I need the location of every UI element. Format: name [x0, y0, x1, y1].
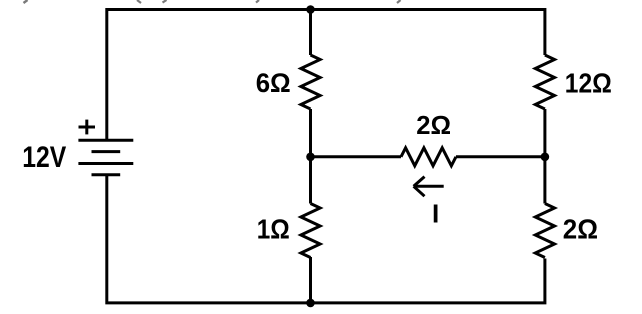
wire middle horizontal left segment: [311, 155, 402, 158]
node B dot (middle left junction): [306, 153, 315, 162]
resistor R5 2ohm right zigzag: [535, 204, 554, 258]
cut-off text fragment 5: [397, 0, 401, 3]
battery V1 plate long top: [78, 139, 133, 142]
svg-text:2Ω: 2Ω: [563, 213, 598, 244]
svg-text:I: I: [432, 199, 439, 229]
wire middle vertical top (node A to 6-ohm): [309, 10, 312, 56]
battery V1 plate short bottom: [92, 173, 121, 176]
resistor R2 12ohm zigzag: [535, 55, 554, 109]
resistor R3 1ohm zigzag: [301, 204, 320, 258]
battery V1 plate short: [92, 150, 121, 153]
wire right vertical center (12-ohm to 2-ohm through node C): [543, 109, 546, 204]
wire middle horizontal right segment: [456, 155, 545, 158]
battery plus sign: [79, 120, 96, 135]
node C dot (middle right junction): [541, 153, 550, 162]
node D dot (bottom middle): [306, 299, 315, 308]
battery V1 plate long bottom: [78, 162, 133, 165]
wire middle vertical bottom (1-ohm to bottom node): [309, 257, 312, 303]
svg-text:6Ω: 6Ω: [256, 68, 291, 98]
cut-off text fragment 2: [137, 0, 141, 3]
resistor R4 2ohm horizontal zigzag: [401, 148, 456, 166]
current arrow I: [414, 177, 444, 197]
svg-text:1Ω: 1Ω: [257, 213, 290, 244]
wire middle vertical center (6-ohm to 1-ohm through node B): [309, 109, 312, 204]
resistor R1 6ohm zigzag: [301, 55, 320, 109]
cut-off text fragment 1: [24, 0, 28, 3]
wire bottom loop: left vertical lower + bottom wire + right vertical bottom: [107, 175, 545, 303]
cut-off text fragment 3: [163, 0, 167, 3]
cut-off text fragment 4: [256, 0, 259, 3]
svg-text:12Ω: 12Ω: [565, 68, 612, 99]
wire top loop: left vertical + top wire + right vertical top: [107, 10, 545, 141]
node A dot (top middle): [306, 5, 315, 14]
svg-text:12V: 12V: [22, 141, 66, 174]
svg-text:2Ω: 2Ω: [416, 110, 451, 140]
